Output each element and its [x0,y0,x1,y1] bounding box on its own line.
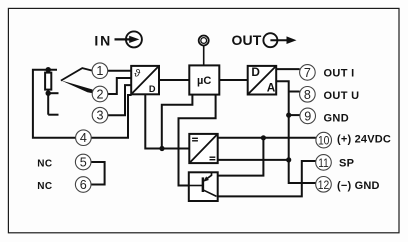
terminal 1 [92,63,108,79]
terminal 9 [300,108,316,124]
svg-text:1: 1 [96,64,103,78]
svg-text:OUT U: OUT U [324,90,360,102]
svg-text:3: 3 [96,109,103,123]
svg-text:5: 5 [80,156,87,170]
wire: terminal 4 to left loop and resistor top [33,70,76,138]
svg-text:µC: µC [197,75,211,87]
wire: stub at terminal-2 level [48,92,58,94]
svg-text:9: 9 [304,109,311,123]
wire: A/D to uC [159,79,189,81]
optocoupler Q1 [189,172,218,201]
svg-text:IN: IN [94,32,112,48]
wire: D/A to terminal 7 [276,68,300,70]
svg-text:(+) 24VDC: (+) 24VDC [337,133,391,145]
svg-text:NC: NC [37,181,52,192]
IN arrow symbol [115,31,142,47]
junction dot resistor bottom [46,91,51,96]
wire: terminal 1 to A/D [108,70,132,72]
svg-text:8: 8 [304,88,311,102]
wire: branch to terminal 9 [289,114,300,116]
terminal 4 [76,130,92,146]
thermocouple upper arm [61,68,92,81]
wire: A/D bottom to DC/DC [145,94,189,148]
svg-text:D: D [149,84,156,94]
terminal 5 [75,154,91,170]
junction node bus [286,157,291,162]
microcontroller uC [189,65,219,94]
terminal 7 [300,65,316,81]
svg-text:D: D [251,65,260,79]
OUT arrow symbol [263,33,296,47]
svg-text:GND: GND [324,112,350,124]
terminal 10 [316,132,332,148]
resistor R (RTD) [45,73,51,90]
wire: uC to D/A [219,79,247,81]
wire: stub at terminal-3 level [48,114,58,116]
terminal 6 [75,177,91,193]
DC/DC converter [189,134,217,163]
top connector (double circle) [199,36,209,46]
terminal 3 [92,107,108,123]
wire: connector to uC [203,46,205,65]
wire: branch to terminal 8 [289,91,300,93]
junction node 24V [261,135,266,140]
svg-text:SP: SP [339,157,354,169]
wire: D/A output bus down to terminal 12 [276,81,316,183]
wire: optocoupler top to 24V node [218,138,264,176]
svg-text:6: 6 [80,178,87,192]
svg-text:7: 7 [304,66,311,80]
terminal 12 [316,177,332,193]
wire: optocoupler to terminal 11 [218,161,316,196]
thermocouple lower arm (thick) [61,80,93,93]
A/D converter U1 [131,66,159,94]
terminal 2 [92,86,108,102]
junction node GND [286,113,291,118]
terminal 8 [300,87,316,103]
wire: uC pin to DC/DC node [162,95,193,149]
junction dot resistor top [46,67,51,72]
D/A converter U2 [248,65,277,95]
svg-text:OUT: OUT [232,32,262,48]
svg-text:12: 12 [318,178,330,192]
svg-text:A: A [267,81,276,95]
terminal 11 [316,155,332,171]
svg-text:NC: NC [37,158,52,169]
wire: resistor vertical lead [47,70,49,115]
wire: terminal 4 to A/D corner [91,95,131,138]
wire: terminal 3 to A/D [108,85,131,115]
svg-text:10: 10 [318,134,330,148]
wire: uC pin to optocoupler [179,95,216,186]
svg-text:(−) GND: (−) GND [337,180,380,192]
wire: DC/DC to terminal 10 [218,137,316,139]
svg-text:11: 11 [318,156,329,170]
wire: DC/DC secondary to bus [218,159,289,161]
wire: terminal 2 to A/D [108,78,131,94]
wire: jumper terminal 5 to 6 [91,162,105,185]
junction node DC/DC feed [159,146,164,151]
svg-text:4: 4 [80,131,87,145]
svg-text:2: 2 [96,88,103,102]
svg-text:OUT I: OUT I [324,68,355,80]
